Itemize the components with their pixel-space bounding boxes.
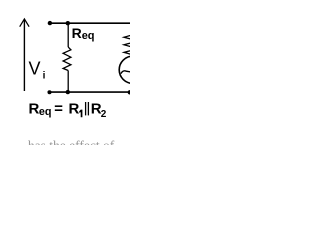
wire resistor top lead <box>67 23 69 47</box>
wire top <box>48 22 130 24</box>
equals sign <box>55 105 63 107</box>
resistor Req <box>63 47 71 70</box>
wire resistor bottom lead <box>67 71 69 93</box>
sine symbol inside source <box>121 71 131 74</box>
svg-text:eq: eq <box>39 106 52 118</box>
node dot bottom-right (cut at edge) <box>128 90 132 94</box>
svg-text:R: R <box>72 25 82 41</box>
svg-text:R: R <box>29 100 40 117</box>
node dot bottom-left <box>48 90 52 94</box>
svg-text:eq: eq <box>82 30 95 42</box>
svg-text:has the effect of: has the effect of <box>28 138 115 145</box>
svg-text:2: 2 <box>101 109 107 120</box>
svg-text:i: i <box>43 71 46 82</box>
svg-text:R: R <box>69 100 80 117</box>
equation Req = R1 || R2 <box>29 100 107 120</box>
node dot bottom-middle junction <box>66 90 70 94</box>
svg-text:V: V <box>29 59 41 79</box>
resistor right (cut at edge) <box>124 23 138 56</box>
arrow Vi input indicator <box>20 19 29 91</box>
source circle (cut at edge) <box>119 56 146 83</box>
wire bottom <box>48 91 130 93</box>
node dot top-left <box>48 21 52 25</box>
subscript 1 drawn <box>79 110 82 118</box>
node dot top-middle <box>66 21 70 25</box>
parallel symbol bars <box>86 102 89 115</box>
